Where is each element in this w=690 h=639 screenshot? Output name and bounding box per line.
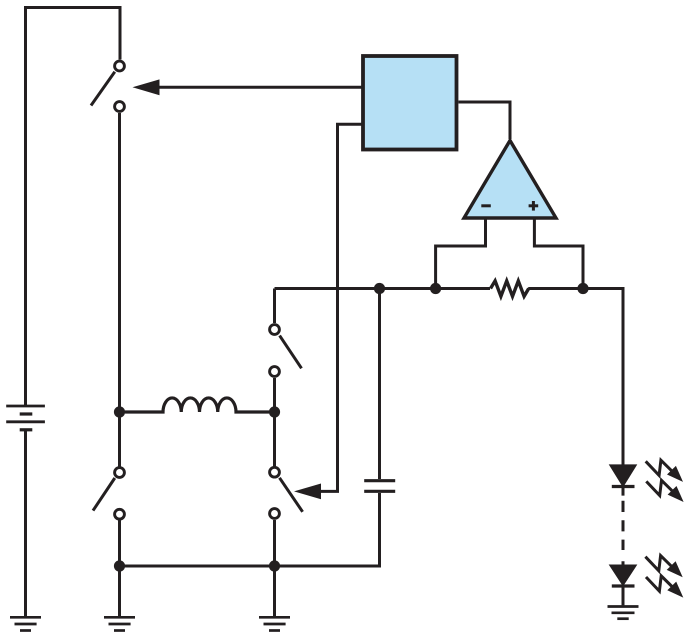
node bus-minus [430, 283, 441, 294]
ground (battery) [10, 617, 41, 630]
wire J4 to ground [118, 566, 121, 616]
arrowhead at S4 [294, 484, 321, 500]
ground (left) [104, 617, 135, 630]
wire U1 to arrow (drives S1) [158, 86, 362, 89]
wire S1 to node J1 [118, 113, 121, 412]
wire S4 to node J3 [273, 520, 276, 566]
capacitor C1 [364, 289, 395, 492]
wire right column top [273, 289, 276, 324]
wire S2 to node J2 [273, 378, 276, 412]
wire feedback U1 to S4 arrow [320, 124, 362, 491]
op-amp U2 [464, 141, 556, 219]
wire op-amp minus input leg [436, 218, 486, 289]
LED D1 emission arrow 2 [646, 480, 683, 502]
wire S3 to node J4 [118, 521, 121, 567]
node J1 [114, 406, 125, 417]
node bus-plus [577, 283, 588, 294]
wire bottom bus [120, 493, 380, 566]
resistor R1 [491, 281, 529, 296]
inductor L1 [125, 398, 269, 412]
LED D2 [611, 566, 636, 587]
wire op-amp plus input leg [534, 218, 583, 289]
wire U1 output to op-amp [459, 102, 511, 139]
wire J3 to ground [273, 566, 276, 616]
switch S2 upper-right [270, 325, 302, 377]
wire bus right + down to LED [528, 289, 623, 465]
node bus-capacitor [374, 283, 385, 294]
switch S3 lower-left [93, 468, 124, 520]
LED D2 emission arrow 2 [646, 576, 683, 598]
ground (right) [259, 617, 290, 630]
LED D1 [611, 465, 636, 486]
switch S1 top-left [91, 61, 124, 111]
ground (LED) [608, 607, 639, 619]
node J4 [114, 560, 125, 571]
wire dashed D1 to D2 [622, 487, 625, 565]
LED D2 emission arrow 1 [645, 556, 682, 578]
control box U1 [363, 56, 457, 150]
wire top-left loop [26, 8, 121, 407]
node J2 [269, 406, 280, 417]
wire horizontal bus [275, 287, 491, 290]
arrowhead at S1 [133, 79, 160, 95]
battery B1 [6, 406, 45, 430]
wire J2 down to S4 [273, 412, 276, 466]
wire J1 down to S3 [118, 412, 121, 467]
LED D1 emission arrow 1 [646, 460, 683, 482]
plus label [529, 201, 539, 211]
wire D2 to ground [622, 586, 625, 605]
minus label [481, 204, 491, 207]
switch S4 lower-right [270, 467, 303, 518]
node J3 [269, 560, 280, 571]
wire battery to ground [24, 430, 27, 616]
